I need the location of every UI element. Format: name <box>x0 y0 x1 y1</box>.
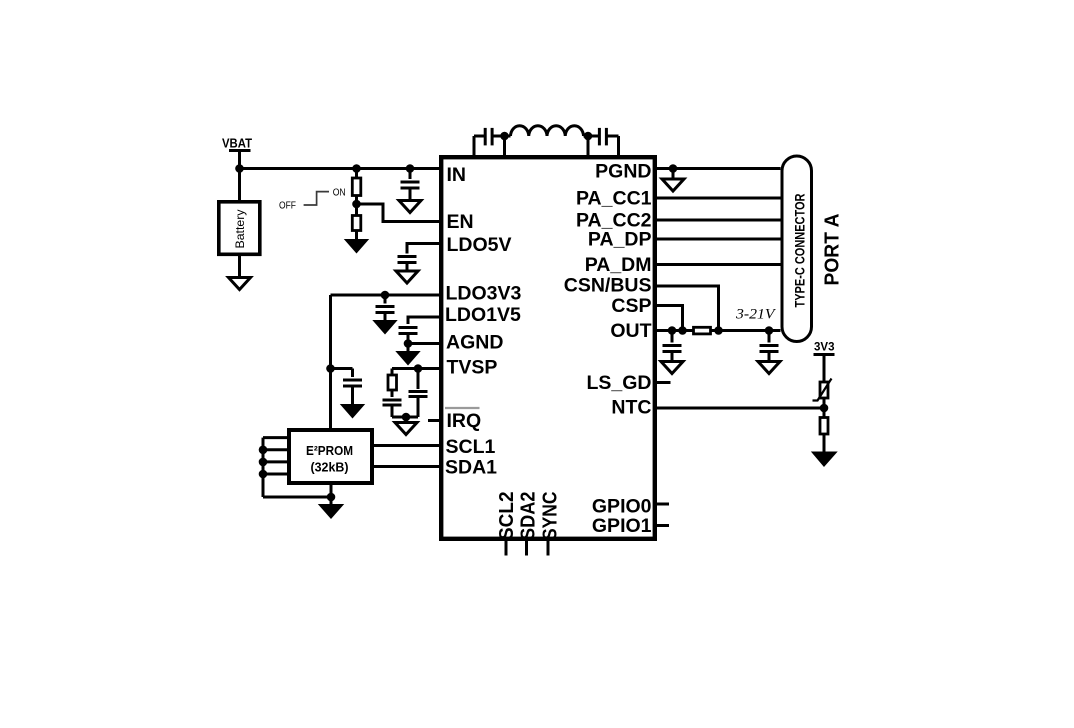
svg-text:ON: ON <box>333 187 346 198</box>
wire TVSP RC bottom <box>392 416 418 419</box>
svg-text:GPIO1: GPIO1 <box>592 515 652 537</box>
top snubber: stub right <box>617 136 620 157</box>
wire 3V3 stem <box>823 355 826 383</box>
junction top bus left <box>500 132 509 141</box>
ground below C6 <box>342 405 363 417</box>
pin label IRQ with overline <box>445 408 481 432</box>
junction AGND <box>404 339 413 348</box>
junction IN-R1 <box>352 164 361 173</box>
svg-text:PA_DP: PA_DP <box>588 229 652 251</box>
ground below RC <box>395 417 417 435</box>
E2PROM pin 1 <box>263 436 287 439</box>
battery B1 <box>219 202 260 255</box>
svg-text:CSP: CSP <box>611 295 651 317</box>
junction OUT a <box>668 326 677 335</box>
wire VBAT to IN <box>240 167 442 170</box>
svg-text:PORT A: PORT A <box>822 214 844 286</box>
junction OUT c <box>714 326 723 335</box>
E2PROM U2 <box>289 430 372 483</box>
E2PROM pin 4 <box>263 473 287 476</box>
wire NTC <box>655 407 824 410</box>
ground below AGND <box>398 344 419 365</box>
svg-text:PGND: PGND <box>595 161 651 183</box>
junction E2PROM gnd <box>327 493 336 502</box>
junction top bus right <box>584 132 593 141</box>
pin stub IRQ <box>428 419 440 422</box>
wire AGND <box>408 342 441 345</box>
wire E2PROM left bus <box>262 438 265 497</box>
wire OUT left <box>655 329 694 332</box>
wire EN <box>357 204 442 222</box>
pin stub SDA2 <box>525 541 528 556</box>
wire bus to C2 <box>474 135 485 138</box>
junction RC bottom <box>402 413 411 422</box>
junction NTC <box>820 404 829 413</box>
capacitor C9 <box>409 369 428 418</box>
wire LDO1V5 <box>408 317 441 324</box>
junction TVSP <box>414 364 423 373</box>
pin stub GPIO0 <box>655 503 669 506</box>
capacitor C8 <box>383 400 402 417</box>
wire SDA1 <box>374 465 441 468</box>
svg-text:AGND: AGND <box>446 332 503 354</box>
svg-text:PA_DM: PA_DM <box>585 254 652 276</box>
wire CSN/BUS <box>655 286 719 331</box>
ground below R5 <box>813 453 836 466</box>
svg-text:E²PROM: E²PROM <box>306 443 353 458</box>
connector J1 TYPE-C <box>782 156 812 342</box>
resistor R5 <box>820 418 828 454</box>
wire TVSP <box>392 367 441 370</box>
resistor R1 <box>352 169 361 216</box>
wire PA_DM <box>655 263 781 266</box>
ground below E2PROM <box>320 505 342 518</box>
pin stub GPIO1 <box>655 524 669 527</box>
wire CSP <box>655 306 683 331</box>
wire E2PROM bottom <box>263 496 331 499</box>
svg-text:LS_GD: LS_GD <box>586 372 651 394</box>
E2PROM pin 2 <box>263 448 287 451</box>
capacitor C10 <box>663 331 682 365</box>
junction PGND <box>669 164 678 173</box>
capacitor C7 <box>399 328 418 344</box>
pin stub SYNC <box>547 541 550 556</box>
wire LDO3V3 <box>331 294 442 297</box>
wire C3 to stub <box>607 135 618 138</box>
svg-text:LDO3V3: LDO3V3 <box>446 283 522 305</box>
wire PA_CC2 <box>655 219 781 222</box>
junction R1-R2 EN node <box>352 200 361 209</box>
stub IN top <box>503 136 506 157</box>
wire battery to ground <box>238 256 241 280</box>
svg-text:LDO1V5: LDO1V5 <box>445 304 521 326</box>
svg-text:SCL1: SCL1 <box>446 436 496 458</box>
svg-text:CSN/BUS: CSN/BUS <box>564 275 652 297</box>
wire VBAT stem <box>238 151 241 201</box>
wire inductor to C3 <box>584 135 599 138</box>
inductor L1 <box>511 126 584 136</box>
svg-text:EN: EN <box>447 211 474 233</box>
resistor R2 <box>352 216 361 242</box>
ground below C10 <box>661 362 683 374</box>
junction E2PROM pin4 <box>259 470 268 479</box>
wire branch to C6 <box>331 367 353 370</box>
ground below C11 <box>758 362 780 374</box>
svg-text:OFF: OFF <box>279 200 296 211</box>
svg-text:OUT: OUT <box>610 320 651 342</box>
svg-text:TVSP: TVSP <box>447 357 498 379</box>
capacitor C6 <box>343 369 362 407</box>
capacitor C2 <box>485 128 492 145</box>
svg-text:SCL2: SCL2 <box>496 492 518 541</box>
junction E2PROM pin2 <box>259 446 268 455</box>
wire SCL1 <box>374 444 441 447</box>
capacitor C11 <box>760 331 779 365</box>
svg-text:NTC: NTC <box>611 397 651 419</box>
junction E2PROM pin3 <box>259 458 268 467</box>
ground below R2 <box>346 240 367 252</box>
wire C2 to inductor <box>493 135 511 138</box>
wire LDO3V3 vertical to E2PROM <box>329 295 332 428</box>
stub SW top <box>587 136 590 157</box>
resistor R3 <box>388 369 397 398</box>
pin stub SCL2 <box>505 541 508 556</box>
svg-text:IN: IN <box>447 164 467 186</box>
net label VBAT <box>222 137 252 151</box>
pin stub LS_GD <box>655 381 671 384</box>
wire PGND <box>655 167 781 170</box>
wire E2PROM gnd stem <box>330 485 333 506</box>
wire RT1 to R5 <box>823 398 826 418</box>
wire LDO5V <box>407 244 441 254</box>
svg-text:3V3: 3V3 <box>814 340 835 354</box>
svg-text:(32kB): (32kB) <box>311 460 349 475</box>
svg-text:3-21V: 3-21V <box>735 307 776 323</box>
resistor R4 <box>694 327 711 334</box>
capacitor C3 <box>599 128 606 145</box>
svg-text:SDA2: SDA2 <box>518 492 540 541</box>
svg-text:LDO5V: LDO5V <box>447 234 512 256</box>
svg-text:VBAT: VBAT <box>222 137 252 151</box>
top snubber: stub left <box>473 136 476 157</box>
capacitor C1 <box>401 169 420 204</box>
E2PROM pin 3 <box>263 460 287 463</box>
ground below battery <box>229 278 251 290</box>
svg-text:SYNC: SYNC <box>540 492 562 541</box>
svg-text:IRQ: IRQ <box>447 410 482 432</box>
capacitor C5 <box>376 295 395 322</box>
junction LDO3V3-C5 <box>381 291 390 300</box>
svg-text:TYPE-C CONNECTOR: TYPE-C CONNECTOR <box>793 193 808 307</box>
junction OUT b <box>678 326 687 335</box>
svg-text:Battery: Battery <box>233 210 247 249</box>
wire PA_CC1 <box>655 197 781 200</box>
junction VBAT node <box>235 164 244 173</box>
junction IN-C1 <box>406 164 415 173</box>
capacitor C4 <box>398 257 417 274</box>
wire PA_DP <box>655 238 781 241</box>
junction LDO3V3 branch <box>326 364 335 373</box>
wire OUT right <box>711 329 781 332</box>
ground below C1 <box>399 201 421 213</box>
thermistor RT1 <box>813 379 832 401</box>
IC U1 <box>441 157 655 539</box>
svg-text:SDA1: SDA1 <box>445 457 497 479</box>
ground below C5 <box>375 321 396 333</box>
svg-text:PA_CC1: PA_CC1 <box>576 188 652 210</box>
ground below C4 <box>396 271 418 283</box>
junction OUT d <box>765 326 774 335</box>
net label 3V3 <box>814 340 835 355</box>
ground below PGND <box>662 169 684 192</box>
switch S1 <box>279 187 346 211</box>
